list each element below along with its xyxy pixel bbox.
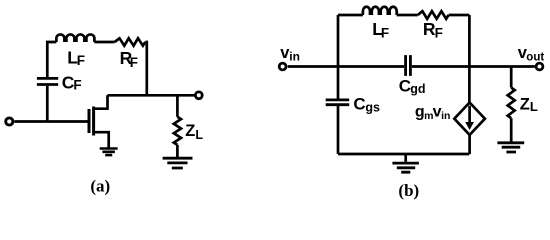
svg-text:gd: gd <box>410 82 425 96</box>
wire (a): CF up to top-left corner <box>47 42 56 77</box>
wire (b): diamond bottom to bottom rail <box>468 135 471 154</box>
ground (b) middle <box>392 163 419 172</box>
wire left vertical (b): Cgs down to bottom rail <box>337 106 340 154</box>
wire top rail (b): left corner to LF <box>338 14 363 17</box>
wire ZL branch (b) <box>510 67 513 88</box>
wire ZL branch (a) <box>176 95 179 117</box>
ground (b) under ZL <box>497 143 524 152</box>
wire left vertical (b): top rail down to Cgs <box>337 15 340 99</box>
input port (a) <box>6 118 13 125</box>
ground (a) under ZL <box>163 158 193 168</box>
svg-text:gs: gs <box>365 100 380 114</box>
svg-text:F: F <box>381 25 389 40</box>
svg-text:out: out <box>526 52 544 64</box>
svg-text:F: F <box>77 53 85 68</box>
wire gate (a): input to MOSFET gate <box>14 120 87 123</box>
svg-text:F: F <box>130 55 138 70</box>
capacitor CF <box>37 78 58 84</box>
svg-text:C: C <box>399 77 411 96</box>
svg-text:C: C <box>353 95 365 114</box>
resistor RF (b) <box>418 11 449 19</box>
svg-text:Z: Z <box>520 95 530 113</box>
wire source (a) <box>94 132 109 147</box>
transistor M1 channel bar <box>92 107 95 136</box>
svg-text:Z: Z <box>185 122 195 140</box>
current source arrow <box>468 106 471 124</box>
wire (a): RF to right vertical down to output rail <box>145 42 147 95</box>
svg-text:F: F <box>73 78 81 93</box>
wire (a): ZL to ground <box>176 145 179 157</box>
wire ground stub (b) <box>404 154 407 162</box>
inductor LF (b) <box>363 7 397 15</box>
inductor LF (a) <box>56 34 94 42</box>
wire right vertical (b): top rail through main rail to source <box>468 15 471 103</box>
resistor ZL (b) <box>508 88 515 119</box>
resistor RF (a) <box>115 38 146 45</box>
dependent current source gm*vin diamond <box>454 103 485 135</box>
output port (a) <box>195 92 202 99</box>
wire (b): ZL to ground <box>510 118 513 141</box>
input port vin <box>279 63 286 70</box>
wire top rail (b): LF to RF <box>397 14 418 17</box>
wire main rail (b): Cgd right plate to vout <box>412 65 535 68</box>
capacitor Cgs <box>326 100 350 105</box>
wire top rail (b): RF to right corner <box>449 14 470 17</box>
svg-text:in: in <box>289 50 300 64</box>
wire CF branch vertical (a): gate wire up to CF <box>46 86 49 122</box>
svg-text:L: L <box>530 99 538 114</box>
capacitor Cgd <box>406 55 411 76</box>
wire (a): LF to RF <box>94 41 114 44</box>
wire drain (a) <box>94 95 108 108</box>
transistor M1 gate bar <box>88 109 91 133</box>
svg-text:L: L <box>195 128 203 142</box>
output port vout <box>536 63 543 70</box>
svg-text:in: in <box>441 110 450 122</box>
resistor ZL (a) <box>174 117 181 145</box>
wire output rail (a) <box>108 94 196 97</box>
wire main rail (b): vin to Cgd left plate <box>288 65 405 68</box>
svg-text:F: F <box>435 25 443 40</box>
ground (a) under transistor <box>100 149 118 156</box>
svg-text:(b): (b) <box>398 181 419 200</box>
wire bottom rail (b) <box>338 153 469 156</box>
svg-text:(a): (a) <box>90 176 110 195</box>
